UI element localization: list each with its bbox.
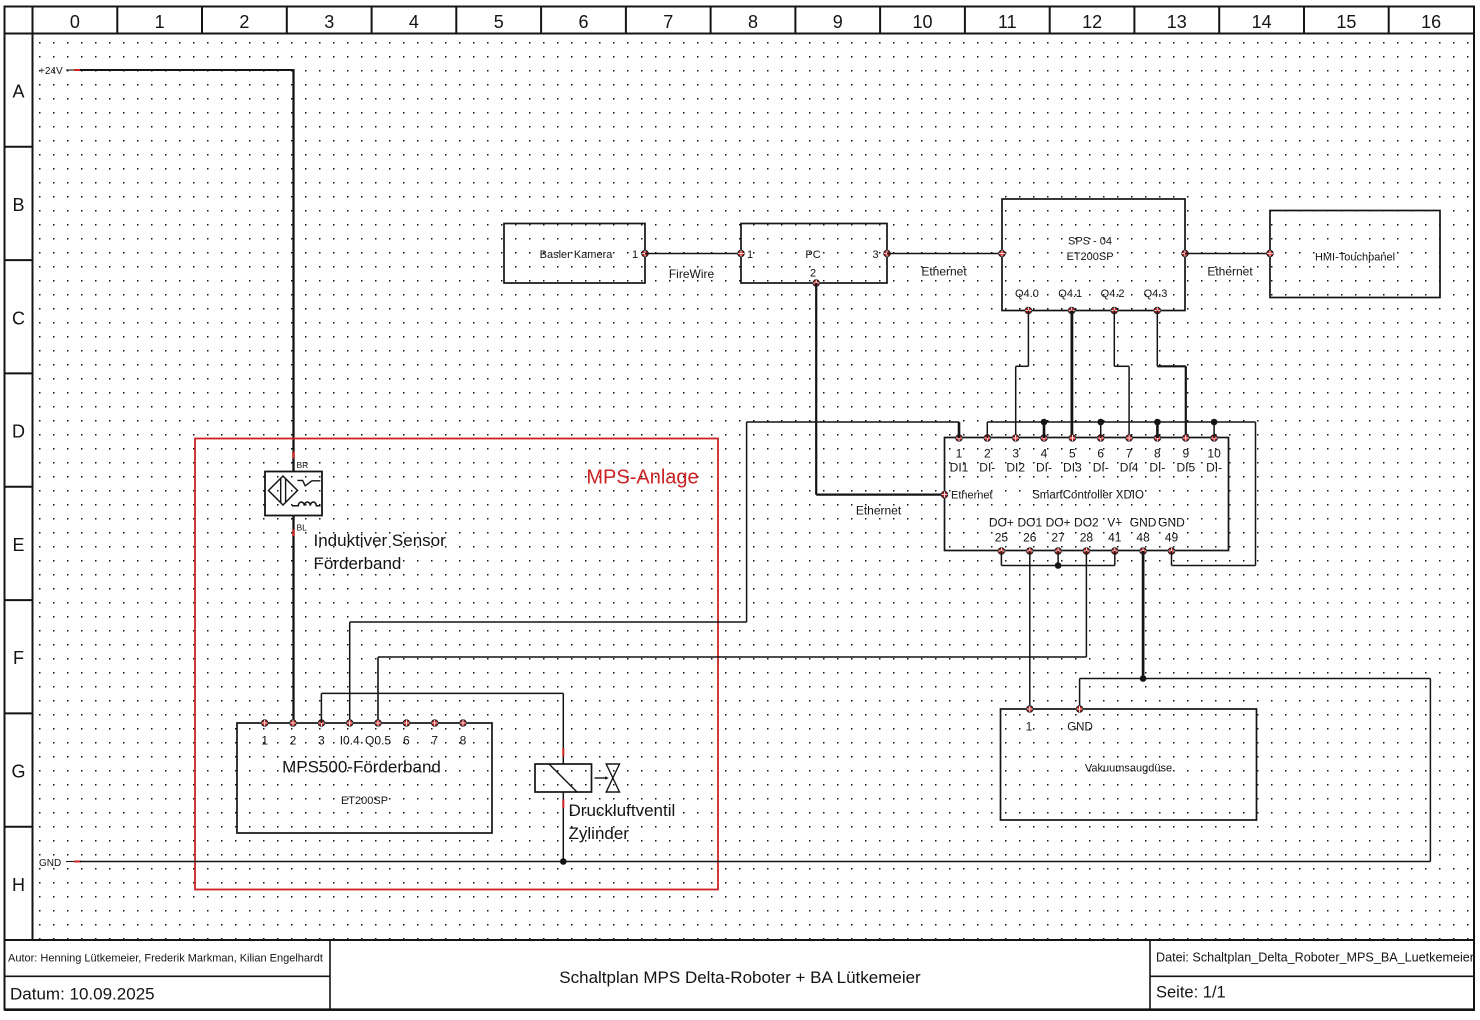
svg-text:9: 9 [1182, 447, 1189, 461]
svg-text:Q0.5: Q0.5 [365, 734, 391, 748]
svg-text:28: 28 [1080, 531, 1094, 545]
MPS500-Foerderband box [237, 723, 492, 833]
pin 6 (DI-) of SmartController [1093, 435, 1109, 475]
wire DO1 (26) -> Vakuumsaugduese pin 1 [1029, 551, 1031, 709]
svg-text:B: B [12, 195, 24, 215]
pin Ethernet right of SPS [1182, 250, 1188, 256]
svg-text:GND: GND [1130, 516, 1157, 530]
pin Q4.1 [1069, 307, 1075, 313]
wire I0.4 -> DI1 (pin1) [350, 422, 959, 723]
column header labels 0-16 [70, 7, 1441, 34]
svg-text:16: 16 [1421, 12, 1441, 32]
wire GND branch right and down to rail [1143, 679, 1430, 862]
svg-text:H: H [12, 875, 25, 895]
svg-text:13: 13 [1167, 12, 1187, 32]
wire GND branch to Vakuumsaugduese GND [1080, 679, 1144, 710]
svg-text:DO+: DO+ [989, 516, 1014, 530]
svg-text:49: 49 [1165, 531, 1179, 545]
svg-text:A: A [12, 82, 24, 102]
pin 1 of Basler Kamera [642, 250, 648, 256]
svg-text:DI5: DI5 [1176, 461, 1195, 475]
svg-text:E: E [12, 535, 24, 555]
wire sensor BL down to MPS500 pin 2 [292, 516, 294, 724]
pin 25 (DO+) of SmartController [989, 516, 1014, 555]
SmartController XDIO box [945, 438, 1229, 551]
valve caption [569, 801, 676, 843]
svg-text:Ethernet: Ethernet [921, 265, 967, 279]
svg-text:48: 48 [1136, 531, 1150, 545]
svg-text:5: 5 [494, 12, 504, 32]
pin GND of Vakuumsaugduese [1067, 706, 1093, 734]
svg-text:GND: GND [39, 858, 61, 869]
wire +24V down to sensor BR [292, 69, 294, 471]
svg-text:3: 3 [872, 249, 878, 261]
svg-text:7: 7 [1126, 447, 1133, 461]
pin 49 (GND) of SmartController [1158, 516, 1185, 555]
svg-text:6: 6 [578, 12, 588, 32]
svg-text:+24V: +24V [39, 66, 63, 77]
svg-text:2: 2 [984, 447, 991, 461]
pin 10 (DI-) of SmartController [1206, 435, 1222, 475]
svg-text:DI-: DI- [1036, 461, 1052, 475]
svg-text:12: 12 [1082, 12, 1102, 32]
svg-text:1: 1 [261, 734, 268, 748]
svg-text:2: 2 [290, 734, 297, 748]
svg-text:V+: V+ [1107, 516, 1122, 530]
svg-text:HMI-Touchpanel: HMI-Touchpanel [1315, 252, 1395, 264]
svg-text:Ethernet: Ethernet [951, 490, 993, 502]
svg-text:2: 2 [239, 12, 249, 32]
svg-text:26: 26 [1023, 531, 1037, 545]
svg-text:SmartController XDIO: SmartController XDIO [1032, 490, 1144, 502]
svg-text:4: 4 [409, 12, 419, 32]
wire GND 48 down [1142, 551, 1145, 679]
svg-text:2: 2 [810, 268, 816, 280]
inductive proximity sensor (Induktiver Sensor) body [265, 472, 322, 516]
pin 7 of MPS500 [431, 720, 438, 748]
SPS-04 ET200SP box [1002, 199, 1185, 311]
pin 2 of PC [813, 280, 819, 286]
pin 48 (GND) of SmartController [1130, 516, 1157, 555]
svg-text:1: 1 [632, 249, 638, 261]
pin I0.4 of MPS500 [340, 720, 360, 748]
svg-text:0: 0 [70, 12, 80, 32]
svg-text:I0.4: I0.4 [340, 734, 360, 748]
pin Ethernet of SmartController [941, 491, 947, 497]
svg-text:25: 25 [995, 531, 1009, 545]
pin Q4.0 [1025, 307, 1031, 313]
svg-text:Druckluftventil: Druckluftventil [569, 801, 676, 820]
pin 1 of MPS500 [261, 720, 268, 748]
svg-text:DO2: DO2 [1074, 516, 1099, 530]
row labels A-H [5, 82, 33, 895]
svg-text:Autor: Henning Lütkemeier, Fre: Autor: Henning Lütkemeier, Frederik Mark… [8, 953, 323, 965]
junction GND at 48 branch [1140, 675, 1147, 682]
junction on DI- bus at pin 8 [1154, 419, 1161, 426]
svg-text:41: 41 [1108, 531, 1122, 545]
pin 3 of PC [884, 250, 890, 256]
svg-text:Datei: Schaltplan_Delta_Robote: Datei: Schaltplan_Delta_Roboter_MPS_BA_L… [1156, 950, 1475, 965]
wire Ethernet SPS->HMI [1185, 253, 1270, 255]
open pin stub (red) at valve bottom [562, 800, 564, 809]
svg-text:10: 10 [912, 12, 932, 32]
pin 1 (DI1) of SmartController [950, 435, 969, 475]
svg-text:DO+: DO+ [1046, 516, 1071, 530]
wire DO+ 25 / DO+ 27 / V+ 41 link [1001, 551, 1114, 566]
pin 5 (DI3) of SmartController [1063, 435, 1082, 475]
svg-text:27: 27 [1051, 531, 1065, 545]
pin 8 of MPS500 [460, 720, 467, 748]
sensor caption [314, 531, 447, 573]
svg-text:BL: BL [297, 523, 308, 533]
wire FireWire Basler->PC [645, 253, 741, 255]
svg-text:15: 15 [1336, 12, 1356, 32]
svg-text:Q4.1: Q4.1 [1058, 288, 1082, 300]
svg-text:DI-: DI- [1149, 461, 1165, 475]
wire valve bottom -> GND rail [562, 792, 564, 862]
junction on DI- bus at pin 4 [1041, 419, 1048, 426]
svg-text:1: 1 [747, 249, 753, 261]
svg-text:F: F [13, 648, 24, 668]
wire GND rail horizontal [66, 861, 1430, 863]
pin 27 (DO+) of SmartController [1046, 516, 1071, 555]
junction on DI- bus at pin 10 [1211, 419, 1218, 426]
svg-text:MPS500-Förderband: MPS500-Förderband [282, 758, 441, 777]
svg-text:Q4.2: Q4.2 [1101, 288, 1125, 300]
svg-text:G: G [11, 762, 25, 782]
svg-text:PC: PC [805, 249, 820, 261]
svg-text:DI-: DI- [1206, 461, 1222, 475]
svg-text:4: 4 [1041, 447, 1048, 461]
svg-text:C: C [12, 308, 25, 328]
Vakuumsaugduese box [1001, 709, 1257, 820]
pin of HMI-Touchpanel [1267, 250, 1273, 256]
svg-text:BR: BR [297, 460, 309, 470]
pin 2 (DI-) of SmartController [979, 435, 995, 475]
svg-text:Induktiver Sensor: Induktiver Sensor [314, 531, 447, 550]
svg-text:MPS-Anlage: MPS-Anlage [586, 467, 698, 489]
svg-text:Vakuumsaugdüse: Vakuumsaugdüse [1085, 763, 1172, 775]
svg-text:Ethernet: Ethernet [1207, 265, 1253, 279]
svg-text:Schaltplan MPS Delta-Roboter +: Schaltplan MPS Delta-Roboter + BA Lütkem… [559, 968, 921, 987]
wire DI- common bus above SmartController [987, 422, 1255, 438]
svg-text:Zylinder: Zylinder [569, 824, 630, 843]
svg-text:DI1: DI1 [950, 461, 969, 475]
Druckluftventil valve symbol [535, 764, 620, 792]
svg-text:GND: GND [1067, 722, 1093, 734]
svg-text:7: 7 [663, 12, 673, 32]
svg-text:8: 8 [460, 734, 467, 748]
pin 3 of MPS500 [318, 720, 325, 748]
svg-text:8: 8 [1154, 447, 1161, 461]
wire Q4.3 -> DI5 (pin9) [1157, 311, 1186, 439]
svg-text:GND: GND [1158, 516, 1185, 530]
wire +24V rail horizontal [66, 69, 294, 71]
svg-text:Ethernet: Ethernet [856, 504, 902, 518]
pin 28 (DO2) of SmartController [1074, 516, 1099, 555]
svg-text:3: 3 [1012, 447, 1019, 461]
svg-text:DO1: DO1 [1017, 516, 1042, 530]
pin 1 of PC [738, 250, 744, 256]
wire MPS500 pin3 -> Druckluftventil [321, 693, 563, 764]
svg-text:3: 3 [324, 12, 334, 32]
pin 3 (DI2) of SmartController [1006, 435, 1025, 475]
pin 4 (DI-) of SmartController [1036, 435, 1052, 475]
svg-text:DI-: DI- [979, 461, 995, 475]
pin 6 of MPS500 [403, 720, 410, 748]
open pin stub (red) at sensor BL [292, 530, 294, 537]
svg-text:Basler Kamera: Basler Kamera [540, 249, 614, 261]
svg-text:6: 6 [403, 734, 410, 748]
svg-text:SPS - 04: SPS - 04 [1068, 236, 1112, 248]
svg-text:Förderband: Förderband [314, 554, 402, 573]
svg-text:6: 6 [1097, 447, 1104, 461]
pin 9 (DI5) of SmartController [1176, 435, 1195, 475]
svg-text:ET200SP: ET200SP [1066, 251, 1113, 263]
wire PC pin2 down and right to SmartController Ethernet [816, 283, 944, 495]
svg-text:D: D [12, 422, 25, 442]
svg-text:Q4.0: Q4.0 [1015, 288, 1039, 300]
open pin stub (red) at valve top [562, 748, 564, 757]
open pin stub (red) at sensor BR [292, 452, 294, 459]
junction at DO+ 27 [1055, 562, 1062, 569]
svg-text:3: 3 [318, 734, 325, 748]
pin 2 of MPS500 [290, 720, 297, 748]
pin 8 (DI-) of SmartController [1149, 435, 1165, 475]
PC box [741, 224, 887, 284]
svg-text:5: 5 [1069, 447, 1076, 461]
wire Ethernet PC->SPS [887, 253, 1002, 255]
svg-text:DI3: DI3 [1063, 461, 1082, 475]
svg-text:ET200SP: ET200SP [341, 795, 388, 807]
svg-text:Q4.3: Q4.3 [1144, 288, 1168, 300]
svg-text:8: 8 [748, 12, 758, 32]
pin Q4.3 [1154, 307, 1160, 313]
svg-text:DI2: DI2 [1006, 461, 1025, 475]
pin 1 of Vakuumsaugduese [1026, 706, 1033, 734]
pin Ethernet left of SPS [999, 250, 1005, 256]
svg-text:1: 1 [956, 447, 963, 461]
pin Q0.5 of MPS500 [365, 720, 391, 748]
wire Q4.2 -> DI4 (pin7) [1114, 311, 1129, 439]
HMI-Touchpanel box [1270, 211, 1440, 298]
svg-text:Seite: 1/1: Seite: 1/1 [1156, 984, 1226, 1002]
svg-text:10: 10 [1207, 447, 1221, 461]
svg-text:7: 7 [431, 734, 438, 748]
svg-text:14: 14 [1252, 12, 1272, 32]
junction on DI- bus at pin 6 [1097, 419, 1104, 426]
svg-text:1: 1 [1026, 722, 1032, 734]
pin 26 (DO1) of SmartController [1017, 516, 1042, 555]
svg-text:1: 1 [155, 12, 165, 32]
wire Q4.0 -> DI2 (pin3) [1016, 311, 1029, 439]
junction valve-GND rail [560, 858, 567, 865]
svg-text:DI-: DI- [1093, 461, 1109, 475]
pin 7 (DI4) of SmartController [1120, 435, 1139, 475]
wire DI- bus loop to pin 49 GND [1172, 422, 1256, 566]
wire Q4.1 -> DI3 (pin5) [1071, 311, 1074, 439]
wire DO2 (28) -> MPS500 Q0.5 [378, 551, 1086, 723]
svg-text:FireWire: FireWire [669, 267, 715, 281]
pin Q4.2 [1111, 307, 1117, 313]
title block [5, 940, 1475, 1010]
svg-text:Datum: 10.09.2025: Datum: 10.09.2025 [10, 985, 155, 1004]
svg-text:DI4: DI4 [1120, 461, 1139, 475]
pin 41 (V+) of SmartController [1107, 516, 1122, 555]
MPS-Anlage red boundary box [195, 439, 718, 890]
svg-text:11: 11 [998, 12, 1017, 32]
svg-text:9: 9 [833, 12, 843, 32]
Basler Kamera box [504, 224, 645, 284]
